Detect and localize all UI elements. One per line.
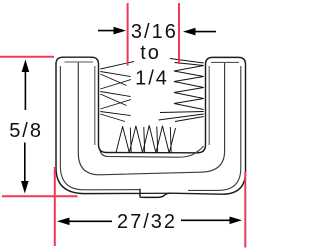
channel inner offset line left/corner/bottom [60, 66, 139, 190]
red extension line bottom right (27/32 dim) [244, 172, 246, 248]
svg-text:3/16: 3/16 [131, 21, 178, 43]
channel top inner line right wall [211, 61, 239, 63]
channel top inner line left wall [65, 61, 94, 63]
bristles left wall [100, 62, 134, 122]
svg-text:1/4: 1/4 [135, 68, 169, 90]
svg-text:to: to [140, 42, 161, 64]
channel floor second line [100, 146, 204, 157]
arrow left-pointing (27/32 dim) [69, 220, 112, 222]
channel left wall face offset [94, 66, 96, 145]
red extension line top-left (top of 5/8) [0, 56, 54, 58]
svg-text:27/32: 27/32 [117, 211, 177, 233]
red extension line top gap right (3/16 dim) [178, 3, 180, 64]
channel outer silhouette [56, 57, 246, 197]
arrow right-pointing (27/32 dim) [181, 219, 230, 221]
arrow left-pointing (gap dim right) [195, 31, 216, 33]
channel inner offset line right [188, 66, 241, 190]
arrow right-pointing (gap dim left) [98, 30, 115, 32]
bristles right wall [159, 59, 204, 122]
bottom outer line passing behind tab [140, 192, 170, 194]
red extension line bottom left (27/32 dim) [54, 167, 56, 246]
channel right wall face offset [208, 66, 210, 145]
arrow down (5/8 dim) [24, 143, 26, 182]
red extension line top gap left (3/16 dim) [127, 3, 129, 66]
arrow up (5/8 dim) [24, 72, 26, 110]
svg-text:5/8: 5/8 [9, 120, 43, 142]
bristles bottom (upward spikes) [116, 126, 176, 154]
channel middle contour (metal carrier) [78, 63, 224, 175]
red extension line bottom-left (bottom of 5/8) [2, 195, 78, 197]
